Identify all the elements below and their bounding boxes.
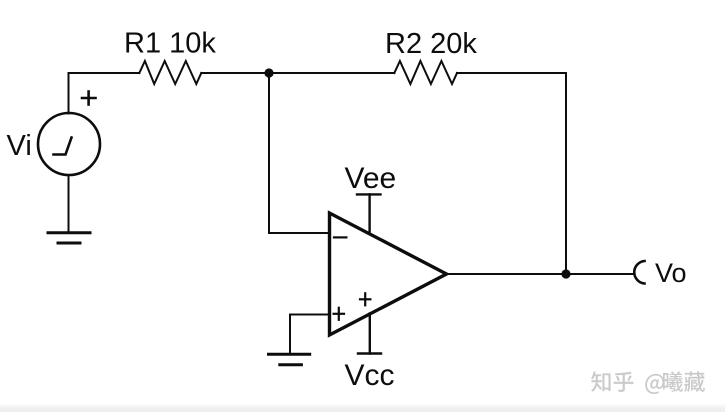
wire R1 to node A xyxy=(201,72,269,74)
svg-text:R1 10k: R1 10k xyxy=(124,28,216,60)
svg-text:Vee: Vee xyxy=(345,162,397,195)
svg-text:Vi: Vi xyxy=(7,130,32,162)
wire node B to output terminal xyxy=(566,273,635,275)
wire node A down to inverting input xyxy=(269,73,328,233)
Vcc pin xyxy=(358,314,381,354)
voltage source Vi circle xyxy=(38,113,100,175)
Vee pin xyxy=(357,194,381,232)
positive supply plus mark xyxy=(360,293,370,305)
wire node A to R2 xyxy=(269,72,394,74)
op-amp U1 triangle xyxy=(330,213,447,335)
watermark 知乎 @曦藏 xyxy=(591,371,705,394)
svg-text:Vo: Vo xyxy=(655,258,687,288)
resistor R1 xyxy=(139,61,201,84)
inverting input minus mark xyxy=(334,236,346,238)
wire R2 to feedback corner down to output node xyxy=(457,73,566,274)
wire Vi bottom to ground xyxy=(68,175,70,233)
plus polarity mark of Vi xyxy=(82,92,96,105)
wire op-amp output to node B xyxy=(447,273,567,275)
bottom edge shading xyxy=(0,403,725,412)
node A junction dot xyxy=(264,68,273,77)
ground at non-inverting input xyxy=(269,354,310,365)
ground under Vi xyxy=(48,233,90,243)
svg-text:R2 20k: R2 20k xyxy=(385,28,477,60)
output terminal arc xyxy=(634,261,644,284)
wire Vi top to R1 xyxy=(69,73,140,114)
non-inverting input plus mark xyxy=(334,308,344,320)
resistor R2 xyxy=(394,61,457,84)
svg-text:Vcc: Vcc xyxy=(345,359,395,392)
node B junction dot xyxy=(561,269,570,278)
voltage source waveform symbol xyxy=(54,138,72,155)
wire ground to non-inverting input xyxy=(290,315,328,353)
